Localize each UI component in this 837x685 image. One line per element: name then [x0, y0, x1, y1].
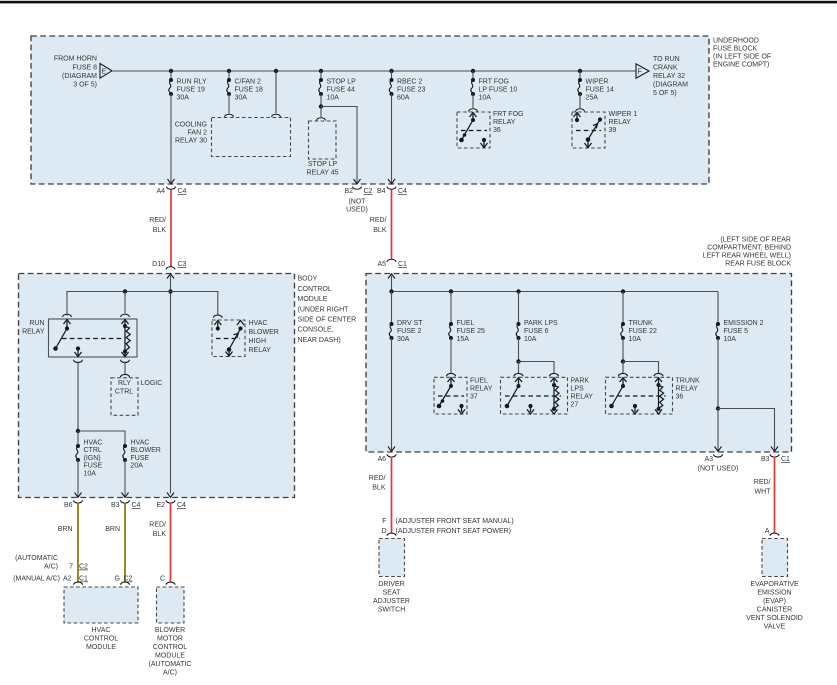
svg-text:MODULE: MODULE — [298, 296, 328, 303]
body control module label — [298, 276, 357, 345]
arrow at A3 exit — [715, 447, 722, 452]
svg-text:RELAY: RELAY — [493, 119, 516, 126]
svg-text:LPS: LPS — [571, 386, 585, 393]
svg-text:(NOT: (NOT — [348, 199, 366, 206]
svg-text:15A: 15A — [457, 336, 470, 343]
fuse HVAC CTRL IGN 10A — [76, 444, 80, 462]
node stop lp tap — [319, 69, 323, 73]
svg-text:WHT: WHT — [755, 489, 772, 496]
wire bus to cooling fan relay pin 2 — [275, 71, 277, 114]
svg-text:B6: B6 — [64, 502, 73, 509]
svg-text:C1: C1 — [781, 456, 790, 463]
svg-text:FUSE 44: FUSE 44 — [327, 87, 356, 94]
wire branch to blower fuse — [78, 431, 125, 446]
wire stop lp fuse to relay 45 — [320, 107, 322, 118]
wire run relay output down — [77, 362, 79, 432]
wire bus corner to fuse 5 — [717, 292, 719, 325]
fuel relay label — [470, 378, 493, 401]
arrow at A6 exit — [388, 447, 395, 452]
svg-text:FUSE: FUSE — [84, 463, 103, 470]
connector cup hvac module pin 1 — [74, 582, 83, 585]
main bus wire — [112, 70, 636, 72]
node BCM bus at coil branch — [123, 289, 127, 293]
svg-text:DRV ST: DRV ST — [397, 320, 423, 327]
run relay coil — [122, 320, 131, 357]
svg-text:MOTOR: MOTOR — [157, 636, 183, 643]
svg-text:C1: C1 — [79, 576, 88, 583]
arrow at E2 exit — [167, 493, 174, 498]
fuse 23 label — [397, 79, 426, 102]
fuse 22 label — [629, 320, 658, 343]
svg-text:C2: C2 — [79, 564, 88, 571]
wire junction to park relay pin — [518, 362, 520, 374]
node trunk coil branch — [621, 359, 625, 363]
wire branch to B2 — [321, 107, 357, 184]
entry chevron A5 — [388, 274, 395, 279]
wire label RED/BLK a6 — [369, 475, 386, 492]
svg-text:10A: 10A — [629, 336, 642, 343]
svg-text:7: 7 — [69, 564, 73, 571]
svg-text:37: 37 — [470, 394, 478, 401]
fuse 18 label — [235, 79, 264, 102]
connector cup A3 — [714, 454, 723, 457]
wire blower fuse to B3 — [124, 460, 126, 497]
fuse 5 label — [724, 320, 764, 343]
svg-text:(ADJUSTER FRONT SEAT MANUAL): (ADJUSTER FRONT SEAT MANUAL) — [396, 518, 514, 525]
svg-text:25A: 25A — [586, 95, 599, 102]
wire bus to fuse 14 — [579, 71, 581, 80]
connector triangle F — [636, 64, 649, 78]
svg-text:10A: 10A — [524, 336, 537, 343]
connector triangle E — [100, 64, 112, 79]
svg-text:BLK: BLK — [373, 227, 387, 234]
svg-text:TRUNK: TRUNK — [676, 378, 700, 385]
svg-text:ADJUSTER: ADJUSTER — [373, 598, 410, 605]
arrow at B6 exit — [75, 493, 82, 498]
svg-text:(MANUAL A/C): (MANUAL A/C) — [13, 576, 60, 583]
svg-text:BRN: BRN — [58, 526, 73, 533]
wiper relay internals — [574, 113, 603, 148]
svg-text:B3: B3 — [761, 456, 770, 463]
svg-text:HVAC: HVAC — [249, 320, 268, 327]
svg-text:30A: 30A — [177, 95, 190, 102]
svg-text:(IGN): (IGN) — [84, 455, 101, 462]
wire label RED/BLK right — [370, 217, 387, 234]
svg-text:SEAT: SEAT — [383, 590, 401, 597]
svg-text:FROM HORN: FROM HORN — [54, 56, 97, 63]
hvac control module box — [64, 587, 138, 623]
wire RED/WHT B3 down — [774, 457, 776, 534]
svg-text:C4: C4 — [132, 502, 141, 509]
arrow at B3 exit — [122, 493, 129, 498]
automatic a/c pin note — [15, 555, 58, 571]
svg-text:B4: B4 — [377, 188, 386, 195]
node second tap to cooling fan relay — [274, 69, 278, 73]
svg-text:BLOWER: BLOWER — [131, 447, 161, 454]
svg-text:CONTROL: CONTROL — [298, 286, 332, 293]
node emission branch junction — [716, 406, 720, 410]
svg-text:WIPER: WIPER — [586, 79, 609, 86]
wiper 1 relay 39 box — [572, 112, 605, 148]
connector cup wiper relay pin — [576, 109, 585, 112]
wire D10 feed through BCM — [170, 276, 172, 494]
hvac blower high relay box — [212, 320, 245, 357]
svg-text:(IN LEFT SIDE OF: (IN LEFT SIDE OF — [713, 54, 771, 61]
run relay switch — [53, 320, 70, 351]
svg-text:RELAY: RELAY — [249, 347, 272, 354]
wire fuse 22 down to junction — [622, 338, 624, 362]
svg-text:5 OF 5): 5 OF 5) — [653, 90, 677, 97]
svg-text:C4: C4 — [178, 188, 187, 195]
wire fuse 25 to fuel relay — [450, 338, 452, 373]
fuse 19 label — [177, 79, 208, 102]
wire branch to park coil — [519, 362, 555, 374]
svg-text:C/FAN 2: C/FAN 2 — [235, 79, 262, 86]
wire bus to fuse 18 — [228, 71, 230, 80]
run relay output pin — [75, 346, 82, 356]
driver seat switch label — [373, 581, 410, 614]
wiper relay label — [609, 111, 638, 134]
svg-text:(UNDER RIGHT: (UNDER RIGHT — [298, 307, 350, 314]
connector cup A6 — [387, 454, 396, 457]
fuse 44 label — [327, 79, 357, 102]
svg-text:RED/: RED/ — [149, 522, 166, 529]
svg-text:TRUNK: TRUNK — [629, 320, 653, 327]
svg-text:UNDERHOOD: UNDERHOOD — [713, 38, 759, 45]
fuse C/FAN 2 FUSE 18 30A — [227, 78, 231, 96]
arrow at B3 exit — [771, 447, 778, 452]
svg-text:CTRL: CTRL — [115, 389, 133, 396]
svg-text:A6: A6 — [377, 456, 386, 463]
connector cup hvac module pin 2 — [121, 582, 130, 585]
svg-text:RED/: RED/ — [149, 217, 166, 224]
connector cup run relay pin 1 — [63, 314, 72, 317]
frt fog relay internals — [459, 113, 487, 148]
svg-text:EMISSION 2: EMISSION 2 — [724, 320, 764, 327]
svg-text:FUEL: FUEL — [457, 320, 475, 327]
svg-text:CRANK: CRANK — [653, 65, 678, 72]
wire fuse 44 down to junction — [320, 94, 322, 107]
connector cup B6 — [74, 500, 83, 503]
svg-text:CONTROL: CONTROL — [153, 644, 187, 651]
wire label RED/WHT — [754, 479, 771, 496]
svg-text:STOP LP: STOP LP — [327, 79, 357, 86]
wire bus to fuse 19 — [170, 71, 172, 80]
svg-text:C2: C2 — [364, 188, 373, 195]
svg-text:VALVE: VALVE — [764, 624, 786, 631]
wire fuse 14 to relay 39 — [579, 94, 581, 108]
svg-text:MODULE: MODULE — [155, 653, 185, 660]
svg-text:B3: B3 — [111, 502, 120, 509]
top rule bar — [0, 1, 837, 4]
svg-text:RELAY: RELAY — [470, 386, 493, 393]
svg-text:RED/: RED/ — [370, 217, 387, 224]
connector cup B2/C2 — [353, 187, 362, 190]
blower motor control module label — [149, 627, 192, 677]
wire BRN B6 down — [77, 503, 79, 583]
wire bus to fuse 10 — [472, 71, 474, 80]
svg-text:FUSE 18: FUSE 18 — [235, 87, 264, 94]
fuse RUN RLY FUSE 19 30A — [169, 78, 173, 96]
fuse EMISSION 2 FUSE 5 10A — [716, 322, 720, 340]
hvac blower fuse label — [131, 440, 161, 470]
evap canister vent solenoid valve box — [762, 539, 788, 577]
svg-text:FRT FOG: FRT FOG — [493, 111, 523, 118]
svg-text:D10: D10 — [152, 261, 165, 268]
body control module box — [19, 274, 295, 498]
svg-text:RELAY 32: RELAY 32 — [653, 73, 685, 80]
svg-text:10A: 10A — [327, 95, 340, 102]
fuel relay 37 box — [434, 377, 467, 414]
fuse STOP LP FUSE 44 10A — [319, 78, 323, 96]
svg-text:RUN RLY: RUN RLY — [177, 79, 208, 86]
wire junction to trunk relay pin — [622, 362, 624, 374]
fuse 2 label — [397, 320, 423, 343]
svg-text:FUSE BLOCK: FUSE BLOCK — [713, 46, 758, 53]
svg-text:F: F — [638, 69, 642, 76]
node rbec tap — [389, 69, 393, 73]
underhood fuse block box — [31, 36, 709, 184]
fuse PARK LPS FUSE 6 10A — [516, 322, 520, 340]
node BCM bus junction at feed — [168, 289, 172, 293]
hvac ctrl fuse label — [84, 440, 103, 478]
svg-text:FRT FOG: FRT FOG — [479, 79, 509, 86]
svg-text:A/C): A/C) — [44, 564, 58, 571]
rear internal bus wire — [392, 291, 719, 293]
svg-text:A/C): A/C) — [163, 670, 177, 677]
wire bus to fuse 6 — [518, 292, 520, 325]
connector cup run relay bottom pin 1 — [74, 360, 83, 363]
svg-text:39: 39 — [609, 127, 617, 134]
svg-text:(EVAP): (EVAP) — [763, 598, 786, 605]
svg-text:E2: E2 — [156, 502, 165, 509]
svg-text:RELAY 45: RELAY 45 — [306, 170, 338, 177]
wire bus to fuse 44 — [320, 71, 322, 80]
svg-text:10A: 10A — [479, 95, 492, 102]
wire BRN B3 down — [124, 503, 126, 583]
wire junction to hvac ctrl fuse — [77, 431, 79, 446]
trunk relay 36 box — [606, 377, 673, 414]
node c/fan tap — [227, 69, 231, 73]
wire branch to B3 exit — [718, 409, 775, 451]
connector cup B3/C4 — [121, 500, 130, 503]
run relay dashed link — [62, 338, 125, 340]
svg-text:C1: C1 — [398, 261, 407, 268]
svg-text:FUEL: FUEL — [470, 378, 488, 385]
svg-text:TO RUN: TO RUN — [653, 56, 680, 63]
svg-text:(AUTOMATIC: (AUTOMATIC — [149, 661, 192, 668]
arrow at A4 exit — [168, 179, 175, 184]
svg-text:B2: B2 — [344, 188, 353, 195]
svg-text:HVAC: HVAC — [131, 440, 150, 447]
svg-text:CTRL: CTRL — [84, 447, 102, 454]
svg-text:HVAC: HVAC — [84, 440, 103, 447]
blower motor control module box — [157, 587, 185, 623]
svg-text:RBEC 2: RBEC 2 — [397, 79, 422, 86]
svg-text:DRIVER: DRIVER — [378, 581, 404, 588]
fuel relay switch — [437, 378, 465, 414]
wire bus to fuse 23 — [391, 71, 393, 80]
svg-text:(LEFT SIDE OF REAR: (LEFT SIDE OF REAR — [720, 237, 791, 244]
wire label RED/BLK e2 — [149, 522, 166, 539]
stop lp relay 45 box — [309, 121, 337, 159]
svg-text:27: 27 — [571, 402, 579, 409]
fuse 6 label — [524, 320, 558, 343]
fuse TRUNK FUSE 22 10A — [621, 322, 625, 340]
svg-text:A5: A5 — [377, 261, 386, 268]
trunk relay label — [676, 378, 700, 401]
fuse 10 label — [479, 79, 518, 102]
wire RED/BLK B4 to A5 — [391, 190, 393, 260]
wire branch to trunk coil — [623, 362, 659, 374]
svg-text:BLOWER: BLOWER — [249, 329, 279, 336]
svg-text:FUSE 2: FUSE 2 — [397, 328, 422, 335]
node wiper tap — [578, 69, 582, 73]
connector cup park relay pin — [514, 373, 523, 376]
svg-text:A4: A4 — [156, 188, 165, 195]
svg-text:ENGINE COMPT): ENGINE COMPT) — [713, 62, 769, 69]
fuse DRV ST FUSE 2 30A — [389, 322, 393, 340]
svg-text:E: E — [102, 69, 107, 76]
svg-text:36: 36 — [676, 394, 684, 401]
wire hvac ctrl fuse to B6 — [77, 460, 79, 497]
fuse 14 label — [586, 79, 615, 102]
node drv st tap — [389, 289, 393, 293]
trunk relay coil — [655, 378, 664, 414]
svg-text:SWITCH: SWITCH — [378, 607, 406, 614]
wire fuse 10 to relay 36 — [472, 94, 474, 108]
svg-text:CONSOLE,: CONSOLE, — [298, 327, 334, 334]
wire fuse 19 to A4 — [170, 94, 172, 183]
wire junction to A3 — [717, 409, 719, 451]
svg-text:WIPER 1: WIPER 1 — [609, 111, 638, 118]
svg-text:3 OF 5): 3 OF 5) — [73, 82, 97, 89]
fuse FRT FOG LP FUSE 10 10A — [471, 78, 475, 96]
underhood fuse block label — [713, 38, 771, 69]
svg-text:D: D — [381, 528, 386, 535]
svg-text:SIDE OF CENTER: SIDE OF CENTER — [298, 317, 357, 324]
wire fuse 18 to cooling fan relay — [228, 94, 230, 114]
node hvac fuse branch junction — [76, 429, 80, 433]
svg-text:RED/: RED/ — [754, 479, 771, 486]
svg-text:FUSE 14: FUSE 14 — [586, 87, 615, 94]
wire A5 into rear bus — [391, 276, 393, 292]
svg-text:FUSE 5: FUSE 5 — [724, 328, 749, 335]
svg-text:60A: 60A — [397, 95, 410, 102]
svg-text:PARK: PARK — [571, 378, 590, 385]
connector cup blower module pin — [166, 582, 175, 585]
park relay label — [571, 378, 594, 409]
svg-text:MODULE: MODULE — [86, 644, 116, 651]
wire RED/BLK A6 down — [391, 457, 393, 534]
svg-text:BLK: BLK — [153, 227, 167, 234]
wire fuse 6 down to junction — [518, 338, 520, 362]
fuse WIPER FUSE 14 25A — [578, 78, 582, 96]
svg-text:BODY: BODY — [298, 276, 318, 283]
svg-text:F: F — [382, 518, 386, 525]
svg-text:COMPARTMENT, BEHIND: COMPARTMENT, BEHIND — [707, 245, 791, 252]
connector cup stop lp relay pin — [317, 118, 326, 121]
fuse RBEC 2 FUSE 23 60A — [389, 78, 393, 96]
svg-text:HVAC: HVAC — [92, 627, 111, 634]
svg-text:RLY: RLY — [118, 380, 131, 387]
svg-text:C4: C4 — [398, 188, 407, 195]
svg-text:BLK: BLK — [153, 531, 167, 538]
connector cup run relay pin 2 — [121, 314, 130, 317]
entry chevron D10 — [167, 274, 174, 279]
frt fog relay label — [493, 111, 523, 134]
run relay label — [22, 320, 45, 336]
svg-text:(DIAGRAM: (DIAGRAM — [653, 82, 688, 89]
connector cup cooling fan relay pin 1 — [225, 114, 234, 117]
svg-text:VENT SOLENOID: VENT SOLENOID — [746, 615, 803, 622]
svg-text:RELAY: RELAY — [609, 119, 632, 126]
node stop lp branch junction — [319, 104, 323, 108]
wire coil branch down — [124, 292, 126, 314]
svg-text:FUSE 23: FUSE 23 — [397, 87, 426, 94]
trunk relay switch — [609, 378, 665, 414]
stop lp relay label — [306, 161, 338, 177]
from horn fuse 8 source label — [54, 56, 97, 89]
cooling fan relay label — [175, 122, 207, 145]
svg-text:(NOT USED): (NOT USED) — [698, 466, 739, 473]
fuse HVAC BLOWER 20A — [123, 444, 127, 462]
arrow at B2 exit — [354, 179, 361, 184]
svg-text:30A: 30A — [397, 336, 410, 343]
svg-text:BLK: BLK — [372, 485, 386, 492]
svg-text:LOGIC: LOGIC — [141, 380, 163, 387]
wire label RED/BLK left — [149, 217, 166, 234]
svg-text:36: 36 — [493, 127, 501, 134]
svg-text:10A: 10A — [84, 470, 97, 477]
svg-text:(ADJUSTER FRONT SEAT POWER): (ADJUSTER FRONT SEAT POWER) — [396, 528, 512, 535]
svg-text:C2: C2 — [124, 576, 133, 583]
svg-text:HIGH: HIGH — [249, 338, 267, 345]
wire bus to fuse 22 — [622, 292, 624, 325]
node fuel tap — [449, 289, 453, 293]
svg-text:A3: A3 — [704, 456, 713, 463]
svg-text:RELAY 30: RELAY 30 — [175, 138, 207, 145]
svg-text:FUSE 19: FUSE 19 — [177, 87, 206, 94]
svg-text:C: C — [160, 576, 165, 583]
connector cup trunk relay pin — [619, 373, 628, 376]
driver seat adjuster switch box — [379, 539, 405, 577]
svg-text:(DIAGRAM: (DIAGRAM — [62, 73, 97, 80]
svg-text:(AUTOMATIC: (AUTOMATIC — [15, 555, 58, 562]
wire fuse 23 to B4 — [391, 94, 393, 183]
connector cup A4/C4 — [167, 187, 176, 190]
svg-text:EVAPORATIVE: EVAPORATIVE — [750, 581, 799, 588]
svg-text:CONTROL: CONTROL — [84, 636, 118, 643]
svg-text:USED): USED) — [346, 207, 368, 214]
connector cup E2/C4 — [166, 500, 175, 503]
connector cup cooling fan relay pin 2 — [272, 114, 281, 117]
svg-text:FAN 2: FAN 2 — [188, 130, 208, 137]
svg-text:FUSE: FUSE — [131, 455, 150, 462]
connector cup driver seat switch — [387, 533, 396, 536]
svg-text:C3: C3 — [178, 261, 187, 268]
not used note B2 — [346, 199, 368, 214]
svg-text:NEAR DASH): NEAR DASH) — [298, 337, 341, 344]
svg-text:LP FUSE 10: LP FUSE 10 — [479, 87, 518, 94]
connector cup rly ctrl — [121, 374, 130, 377]
svg-text:REAR FUSE BLOCK: REAR FUSE BLOCK — [725, 261, 791, 268]
svg-text:A2: A2 — [63, 576, 72, 583]
wire fuse 5 down to junction — [717, 338, 719, 409]
connector cup trunk coil pin — [654, 373, 663, 376]
frt fog relay 36 box — [457, 112, 490, 148]
svg-text:C4: C4 — [177, 502, 186, 509]
